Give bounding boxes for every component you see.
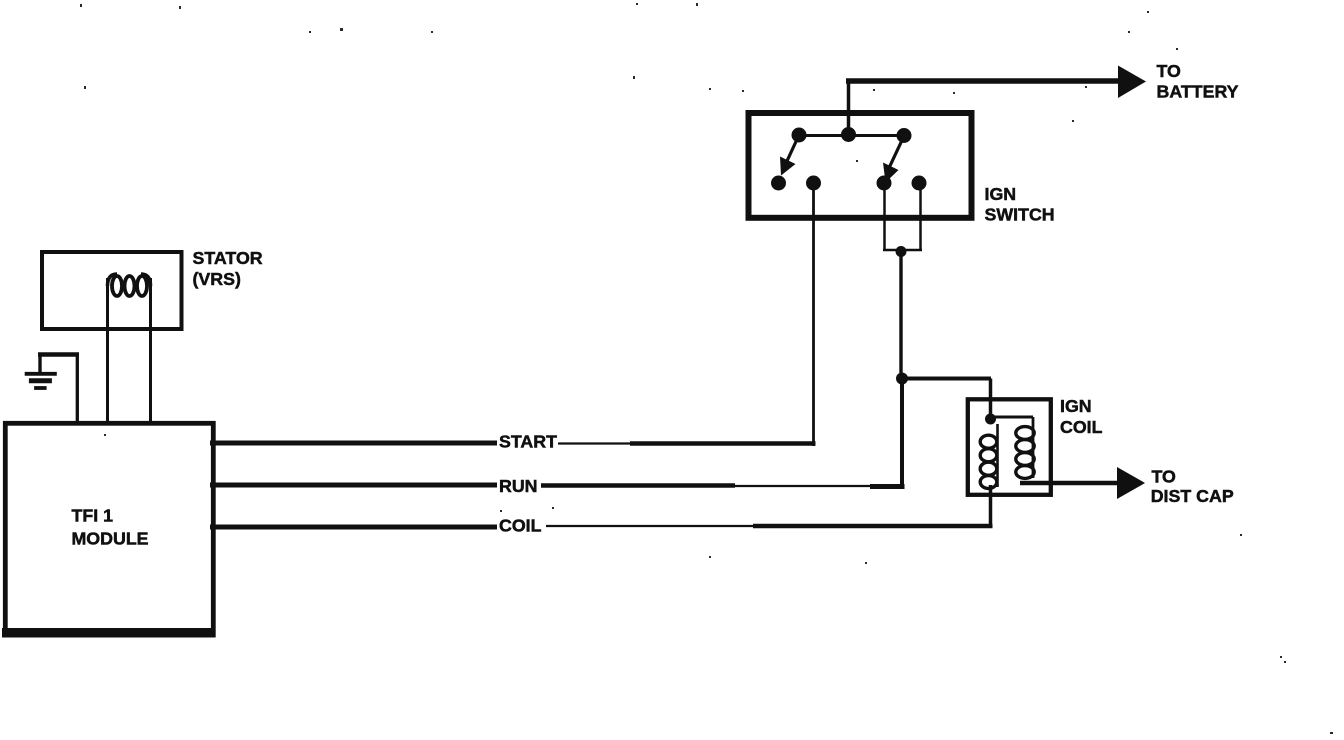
svg-text:(VRS): (VRS) [193, 269, 241, 289]
svg-text:COIL: COIL [1060, 417, 1103, 437]
svg-text:TO: TO [1152, 467, 1177, 487]
svg-text:RUN: RUN [499, 476, 538, 496]
svg-text:IGN: IGN [985, 184, 1017, 204]
svg-text:IGN: IGN [1060, 396, 1092, 416]
svg-text:SWITCH: SWITCH [985, 205, 1055, 225]
svg-text:START: START [499, 432, 557, 452]
svg-text:STATOR: STATOR [193, 248, 263, 268]
svg-text:MODULE: MODULE [72, 529, 149, 549]
svg-text:DIST CAP: DIST CAP [1151, 486, 1234, 506]
svg-text:TFI 1: TFI 1 [72, 506, 114, 526]
svg-text:TO: TO [1157, 61, 1182, 81]
svg-text:BATTERY: BATTERY [1157, 82, 1239, 102]
svg-text:COIL: COIL [499, 516, 542, 536]
